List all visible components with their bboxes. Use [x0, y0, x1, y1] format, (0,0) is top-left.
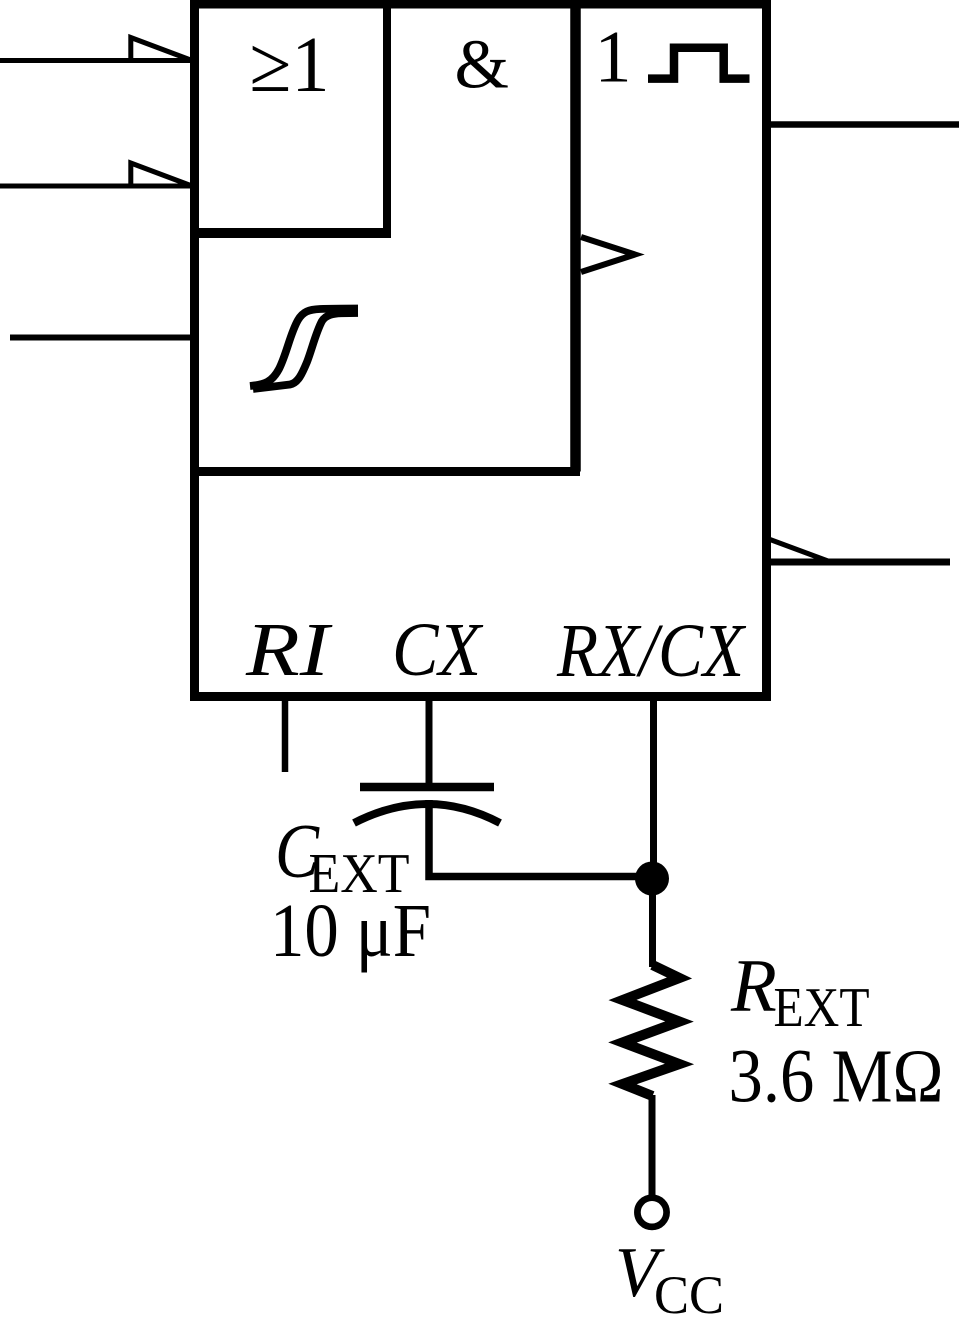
OR section box (right edge of &#8805;1 compartment): [383, 4, 391, 233]
inner divider vertical (one-shot section): [570, 4, 581, 472]
input wire B: [10, 335, 192, 341]
svg-text:EXT: EXT: [774, 977, 870, 1039]
wire junction to resistor: [649, 878, 656, 967]
inner divider horizontal (bottom of gate section): [190, 467, 580, 476]
OR section box bottom line: [190, 228, 391, 238]
IC outline U1 (monostable multivibrator): [195, 4, 767, 697]
svg-text:R: R: [730, 945, 777, 1028]
svg-text:RX/CX: RX/CX: [556, 609, 746, 693]
dynamic input triangle (edge trigger): [581, 237, 635, 272]
pin wire CX: [426, 701, 433, 787]
schmitt trigger hysteresis symbol: [250, 309, 358, 387]
pin stub RI: [282, 701, 289, 772]
pin wire RX/CX: [650, 701, 657, 878]
output wire Q: [766, 121, 959, 128]
polarity wedge on input A1: [131, 38, 192, 61]
svg-text:10 μF: 10 μF: [270, 889, 431, 973]
svg-text:≥1: ≥1: [250, 22, 330, 109]
polarity wedge on output Q-bar: [770, 540, 828, 562]
input wire A2: [0, 184, 192, 189]
wire capacitor to junction: [429, 800, 652, 877]
resistor REXT: [608, 961, 694, 1101]
pulse symbol: [648, 48, 750, 79]
capacitor CEXT top plate: [360, 783, 494, 792]
svg-text:3.6 MΩ: 3.6 MΩ: [729, 1035, 944, 1119]
junction node: [635, 862, 669, 896]
svg-text:RI: RI: [245, 608, 333, 692]
svg-text:CC: CC: [654, 1265, 724, 1325]
svg-text:CX: CX: [392, 608, 483, 692]
VCC terminal circle: [637, 1198, 666, 1227]
svg-text:1: 1: [595, 17, 632, 99]
polarity wedge on input A2: [131, 163, 192, 186]
output wire Q-bar: [766, 559, 950, 566]
capacitor CEXT curved plate: [354, 804, 500, 823]
svg-text:&: &: [455, 26, 509, 103]
input wire A1: [0, 58, 192, 63]
wire resistor to VCC terminal: [649, 1095, 656, 1198]
